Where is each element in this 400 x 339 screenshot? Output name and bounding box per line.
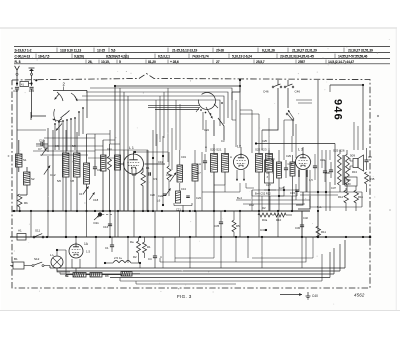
wire br box [120,254,322,281]
wire v betw a [31,211,302,237]
coil S7-8 [74,153,81,177]
wire long v a [94,134,96,160]
svg-text:B5: B5 [369,155,373,159]
label C29 [286,154,291,158]
capacitor C22 [149,172,158,181]
svg-text:7/8: 7/8 [70,179,74,183]
svg-text:L.L: L.L [50,253,55,257]
arrow bottom [280,293,302,296]
table rule 2 [14,52,390,54]
label 4L [160,255,162,259]
resistor R3a [258,213,272,222]
wire top bus drop 240 [232,79,241,100]
wire tube top [75,237,77,244]
svg-text:R3a: R3a [262,218,268,222]
svg-text:12-15: 12-15 [97,49,105,53]
wire bundle h2 [148,106,200,108]
svg-text:A: A [230,155,232,159]
svg-text:S12: S12 [34,257,40,261]
wire Rb down [19,207,21,212]
svg-text:R2: R2 [133,255,137,259]
resistor R14 [338,190,349,203]
svg-text:5P: 5P [267,164,270,167]
wire chokes [104,262,141,264]
label S25 S26 [333,149,345,153]
label C46 right [295,90,301,94]
label D11 [94,221,100,225]
wire psu right pair [346,186,356,211]
wire bottom h 258 [175,257,214,259]
trimmer C7 [38,147,47,156]
wire osc c1 [152,130,157,211]
svg-text:C32: C32 [303,216,308,220]
svg-text:18-6,7,5: 18-6,7,5 [38,55,50,59]
label S22 S23 [255,148,267,152]
capacitor C10 [36,142,48,146]
wire loop down e [175,100,177,150]
wire mid v 269 [268,118,270,148]
label Ra [130,240,134,244]
svg-text:26,: 26, [88,60,92,64]
wire res bottom [66,274,140,275]
wire R10v stem [292,155,294,211]
svg-text:C16: C16 [103,225,109,229]
wire mid v 252 [240,110,252,153]
resistor R7 bar [121,272,132,277]
svg-text:L 1: L 1 [129,146,134,150]
svg-text:L 3: L 3 [298,148,303,152]
wire top bus drop left [114,86,116,237]
svg-text:Rb: Rb [24,201,28,205]
svg-text:R9: R9 [271,157,275,161]
wire S11 out [44,236,47,238]
capacitor C16 [103,224,112,229]
svg-text:S11: S11 [35,229,40,233]
svg-text:21,16,27 22,31,29: 21,16,27 22,31,29 [292,49,317,53]
junction heater right end [369,236,372,239]
coil L6b [176,191,181,203]
svg-text:10,15,: 10,15, [101,60,110,64]
AF stage box top [255,139,335,185]
label 4562 [354,293,365,298]
wire switch to left [31,112,46,120]
capacitor C4b [148,237,157,268]
label S17 [196,171,201,175]
wire L1 cathode [132,168,136,211]
svg-text:C29: C29 [286,154,291,158]
wire left col [16,140,18,211]
svg-text:R10: R10 [276,218,282,222]
svg-text:S1: S1 [23,158,27,162]
svg-text:R16: R16 [358,195,363,199]
svg-text:S17: S17 [196,171,201,175]
wire R4 stem [168,152,170,196]
label FIG 3 [177,294,192,299]
tube L3 [296,153,311,170]
wire osc links [180,150,195,211]
wire tr v4 [262,88,293,136]
label C34 [320,158,325,162]
label 425 [279,186,285,190]
wire tr v2 [287,80,289,85]
svg-text:S2: S2 [31,177,35,181]
wire br corner 1 [160,237,306,262]
wire L2 top [240,147,242,154]
svg-text:C46: C46 [263,90,269,94]
junction antenna row [16,79,38,84]
capacitor C33 [290,190,299,195]
label B4 [237,196,242,200]
output transformer secondary [346,154,350,185]
label C8 [55,144,59,148]
table bottom rule [14,63,390,65]
wire osc bracket [174,203,192,211]
wire mid v 259 [240,114,259,144]
label D2 [262,206,266,210]
label C3 [221,139,225,143]
wire psu v extra [252,190,292,211]
svg-text:C37: C37 [331,186,336,190]
wire left mid v2 [52,130,54,211]
wire pair stems [103,140,110,211]
svg-text:R1: R1 [147,245,151,249]
svg-text:2.5 4+: 2.5 4+ [114,256,122,260]
wire antennas to coupler [17,75,32,86]
table rule 3 [14,58,390,60]
svg-text:14,55,37-57,55,58,46: 14,55,37-57,55,58,46 [338,55,368,59]
junction top bus [114,85,241,87]
wire mid connect [202,185,240,192]
switch S11 [33,229,44,239]
label C19 [181,155,186,159]
svg-text:23,16,27 32,51,39: 23,16,27 32,51,39 [348,49,373,53]
wire v 115 group [120,88,128,211]
page right edge [395,28,397,310]
grid coil S4 [115,155,121,170]
capacitor C47 [13,87,19,93]
switch contacts mid [286,113,294,121]
antenna A1 [15,66,20,73]
svg-text:R1: R1 [146,166,150,170]
label C13t [158,160,163,164]
label R12b [249,203,254,207]
junction left bank [47,210,67,212]
junction coil row [76,210,104,212]
svg-text:L2: L2 [237,145,241,149]
svg-text:RT: RT [267,168,271,171]
svg-text:A: A [199,162,201,166]
switch S16 [284,84,294,88]
label S18 [230,155,232,159]
page bottom edge [0,310,400,312]
resistor R8 bar [90,273,109,279]
wire lamp [57,250,70,272]
svg-text:C19: C19 [181,155,186,159]
wire bm verticals2 [128,237,248,268]
coil S10 [101,155,107,171]
label C37 [331,186,336,190]
svg-text:509: 509 [350,154,355,158]
svg-text:2557: 2557 [298,60,305,64]
wire right 192 v [306,170,310,192]
label S1 [23,158,27,162]
capacitor C1b [105,237,114,252]
wire 363 drop [362,85,364,150]
top B+ bus [115,85,240,87]
svg-text:1,5: 1,5 [309,178,313,182]
svg-text:C18: C18 [93,198,99,202]
resistor R11 [316,226,326,238]
svg-text:D11: D11 [94,221,100,225]
wire R11 stem [317,211,319,238]
resistor R4 osc [167,166,171,180]
svg-text:C33: C33 [290,191,295,195]
capacitor A1c [199,154,207,170]
pilot lamp LL [50,253,63,268]
svg-text:5,6: 5,6 [111,49,116,53]
svg-text:C13: C13 [181,187,186,191]
wire bundle join [44,140,71,211]
svg-text:C8: C8 [55,144,59,148]
capacitor C45 [29,87,35,93]
wire osc extra v [168,120,206,170]
wire det misc [264,184,296,200]
svg-text:R5: R5 [236,224,240,228]
wire tube bottom pins [72,259,80,272]
wire right verticals [318,80,330,237]
svg-text:R13: R13 [352,170,357,174]
wire coil S5 stem [65,130,67,211]
svg-text:D2: D2 [262,206,266,210]
wire OT stems [340,150,347,192]
coil S2 [24,172,31,185]
chassis dash-dot border [12,74,370,289]
volume pot box [265,160,274,183]
antenna connector c2 [31,73,33,75]
wire S12 out [44,266,50,269]
psu h lines [236,200,310,204]
rotary switch S1 wave-band [53,91,88,152]
svg-text:C13: C13 [158,160,163,164]
wire R9 stem [278,150,280,211]
svg-text:C3: C3 [221,139,225,143]
wire speaker [350,158,353,170]
wire loop 4 [78,100,220,126]
wire loop 3 [82,96,224,124]
wire IF1 stems [214,144,225,211]
resistor R6 bar [65,273,86,279]
svg-text:C4: C4 [148,257,152,261]
box S48 S50 [345,177,357,186]
resistor Rb [18,194,23,207]
ground bus [12,210,310,212]
svg-text:25,5,7: 25,5,7 [256,60,265,64]
label C46 left [263,90,269,94]
resistor R10 bar [290,162,295,176]
coil S1 [16,154,23,167]
svg-text:C27: C27 [266,183,271,187]
label R13 [352,170,357,174]
IF2 coil b [266,154,273,173]
label B1 [14,257,18,261]
wire L3 top [302,147,304,154]
wire tr v3 [287,88,289,108]
label L6 [157,199,161,203]
junction bl [56,236,67,251]
wire psu mid [252,211,292,215]
wire R3 [142,168,144,212]
svg-text:S-19,6,7 1-2: S-19,6,7 1-2 [15,49,32,53]
transformer core [343,155,344,185]
svg-text:C7: C7 [38,147,42,151]
svg-text:S48: S48 [346,178,351,182]
svg-text:C30: C30 [295,226,301,230]
label R1a [146,166,150,170]
label 2 above switch [63,82,66,91]
wire r1r2 stems [139,237,145,263]
return line stub left [50,266,60,274]
label S20 S21 [210,148,222,152]
return line 3 [60,248,334,274]
wire loop down d [155,100,157,146]
antenna coupler box R41 [20,82,29,87]
wire switch2 tail [203,112,224,140]
svg-text:946: 946 [332,99,344,121]
label C9 [72,144,76,148]
label 1A [84,242,89,246]
wire tr v1 [277,80,279,85]
label B+4 [255,192,271,196]
wire A1 [10,236,33,238]
svg-text:4,25: 4,25 [279,186,285,190]
coil S5-6 [63,153,70,177]
wire mid connect2 [240,183,254,192]
label C21 [176,208,181,212]
wire coil S7 stem [76,132,78,211]
wire 330 up [329,85,331,92]
potentiometer D11 [94,212,112,220]
speaker [353,155,364,171]
label A1 [18,229,22,233]
capacitor C2a [158,194,166,198]
wire bundle cross h [33,138,103,155]
svg-text:8,5(26)4,5 4,2(1): 8,5(26)4,5 4,2(1) [106,55,129,59]
tube L1 [124,153,144,175]
wire L2 arrows [236,170,245,181]
svg-text:S20 S21: S20 S21 [210,148,222,152]
capacitor C38 right [364,152,372,170]
svg-text:FIG. 3: FIG. 3 [177,294,192,299]
wire IF2 stems [259,144,269,211]
output transformer primary [338,154,342,185]
heater choke 1 [113,261,125,264]
label 15b [309,178,313,182]
svg-text:R15: R15 [370,177,375,181]
capacitor CL3b [323,160,327,182]
svg-text:20-26: 20-26 [216,49,224,53]
wire coil links [19,140,27,195]
svg-text:1.5: 1.5 [86,250,91,254]
svg-text:5/6: 5/6 [57,179,61,183]
heater bus dots [46,236,364,238]
table column ticks [36,48,344,64]
battery A1 box [17,234,26,241]
trimmer C12 [44,165,56,177]
wire IF down [214,172,269,211]
svg-text:Ra: Ra [130,240,134,244]
trimmer C18 [89,192,98,202]
svg-text:C17: C17 [79,192,85,196]
label S5-6 [57,179,61,183]
wire L1 top [134,151,169,154]
svg-text:C24: C24 [204,128,209,132]
svg-text:R11: R11 [321,230,326,234]
label 509 [350,154,355,158]
label C27 [266,183,271,187]
antenna A2 earth [29,68,35,73]
svg-text:C34: C34 [320,158,325,162]
scan speckle noise [8,39,391,305]
svg-text:C23: C23 [196,196,201,200]
svg-text:L6: L6 [157,199,161,203]
switch S12 [32,257,44,267]
svg-text:4562: 4562 [354,293,365,298]
wire bm verticals [96,237,302,268]
wire loop down f [179,104,181,150]
capacitor C36 [325,162,333,178]
svg-text:R- 8: R- 8 [15,60,21,64]
wire L3 grid left [292,161,296,163]
label Rb [24,201,28,205]
capacitor C28 [284,160,293,178]
label 2.5 4+ [114,256,122,260]
wire left mid v1 [47,128,49,211]
coil S9 [84,163,90,184]
svg-text:C40: C40 [312,294,318,298]
svg-text:R12: R12 [249,203,254,207]
svg-text:C-90,14-13: C-90,14-13 [15,55,31,59]
wire br box2 [136,281,236,284]
IF2 coil a [256,154,263,173]
junction right [317,191,327,212]
svg-text:5: 5 [119,60,121,64]
wire R5m stem [233,211,235,237]
svg-text:5,10,19 2-6,24: 5,10,19 2-6,24 [232,55,252,59]
wire osc v right [201,152,203,211]
label 1.5 [86,250,91,254]
label S7-8 [70,179,74,183]
IF1 coil b [222,154,229,173]
trimmer C13 [165,187,186,196]
resistor R2a [108,156,112,170]
wire below caps [17,89,32,140]
IF1 coil a [211,154,218,173]
label C11 [107,147,112,151]
switch S15 [272,84,282,88]
wire bottom v extra [163,237,214,268]
svg-text:21-25,16,12-13,19: 21-25,16,12-13,19 [172,49,197,53]
capacitor C14 [93,160,103,176]
svg-text:A: A [205,145,207,149]
svg-text:74,93-73,74: 74,93-73,74 [192,55,209,59]
junction L1 [117,210,135,212]
svg-text:C46: C46 [295,90,301,94]
label C32 [303,216,308,220]
wire right v pair [296,100,358,150]
svg-text:R14: R14 [338,195,343,199]
svg-text:13,8 9,10 11,13: 13,8 9,10 11,13 [60,49,81,53]
trimmer C17 [79,186,89,196]
